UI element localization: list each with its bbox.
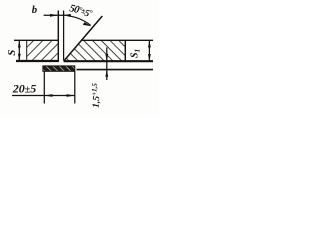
S1 top arrowhead — [148, 40, 151, 47]
left plate body — [27, 40, 59, 61]
svg-text:S1: S1 — [130, 49, 142, 58]
b left arrowhead — [50, 14, 58, 17]
S bottom arrowhead — [18, 54, 21, 61]
20+-5 right arrowhead — [67, 94, 75, 97]
backing bottom edge extension line to right — [77, 69, 154, 71]
svg-text:b: b — [32, 4, 38, 16]
svg-text:20±5: 20±5 — [12, 81, 37, 95]
S1 dimension line — [148, 40, 150, 61]
b right extension line — [63, 11, 65, 61]
left plate right edge (groove face, continues up as b extension line) — [57, 11, 59, 62]
b right arrowhead — [64, 14, 71, 17]
angle arc arrowhead — [83, 22, 92, 26]
left plate left edge — [26, 40, 28, 61]
1,5 bottom arrowhead pointing up — [105, 70, 108, 77]
right plate body (beveled) — [64, 40, 126, 61]
20+-5 right extension line — [74, 72, 76, 104]
right plate top edge (with S1 extension to right) — [82, 39, 153, 41]
label S (rotated) — [6, 50, 18, 56]
svg-text:S: S — [6, 50, 18, 56]
S top arrowhead — [18, 40, 21, 47]
1,5 top arrowhead pointing down — [105, 54, 108, 61]
left plate bottom edge (thick, with S extension to left) — [16, 60, 59, 62]
svg-text:50°±5°: 50°±5° — [68, 3, 94, 20]
label S1 (rotated) — [130, 49, 142, 58]
angle dimension arc — [68, 16, 91, 25]
20+-5 left arrowhead — [44, 94, 52, 97]
label 50deg pm 5deg — [68, 3, 94, 20]
S dimension line — [18, 40, 20, 61]
right plate bottom edge (thick, with S1 extension to right) — [64, 60, 153, 62]
S1 bottom arrowhead — [148, 54, 151, 61]
label 1,5+1,5 (rotated) — [90, 82, 103, 108]
left plate top edge (with S extension to left) — [14, 39, 59, 41]
b dimension line — [44, 14, 71, 16]
1,5 dimension line vertical — [106, 47, 108, 80]
bevel edge line extended above plate — [64, 16, 103, 61]
svg-text:1,5+1,5: 1,5+1,5 — [90, 82, 103, 108]
right plate right edge — [124, 40, 126, 61]
backing strip — [43, 66, 75, 71]
20+-5 dimension line — [12, 95, 75, 97]
20+-5 left extension line — [43, 72, 45, 104]
